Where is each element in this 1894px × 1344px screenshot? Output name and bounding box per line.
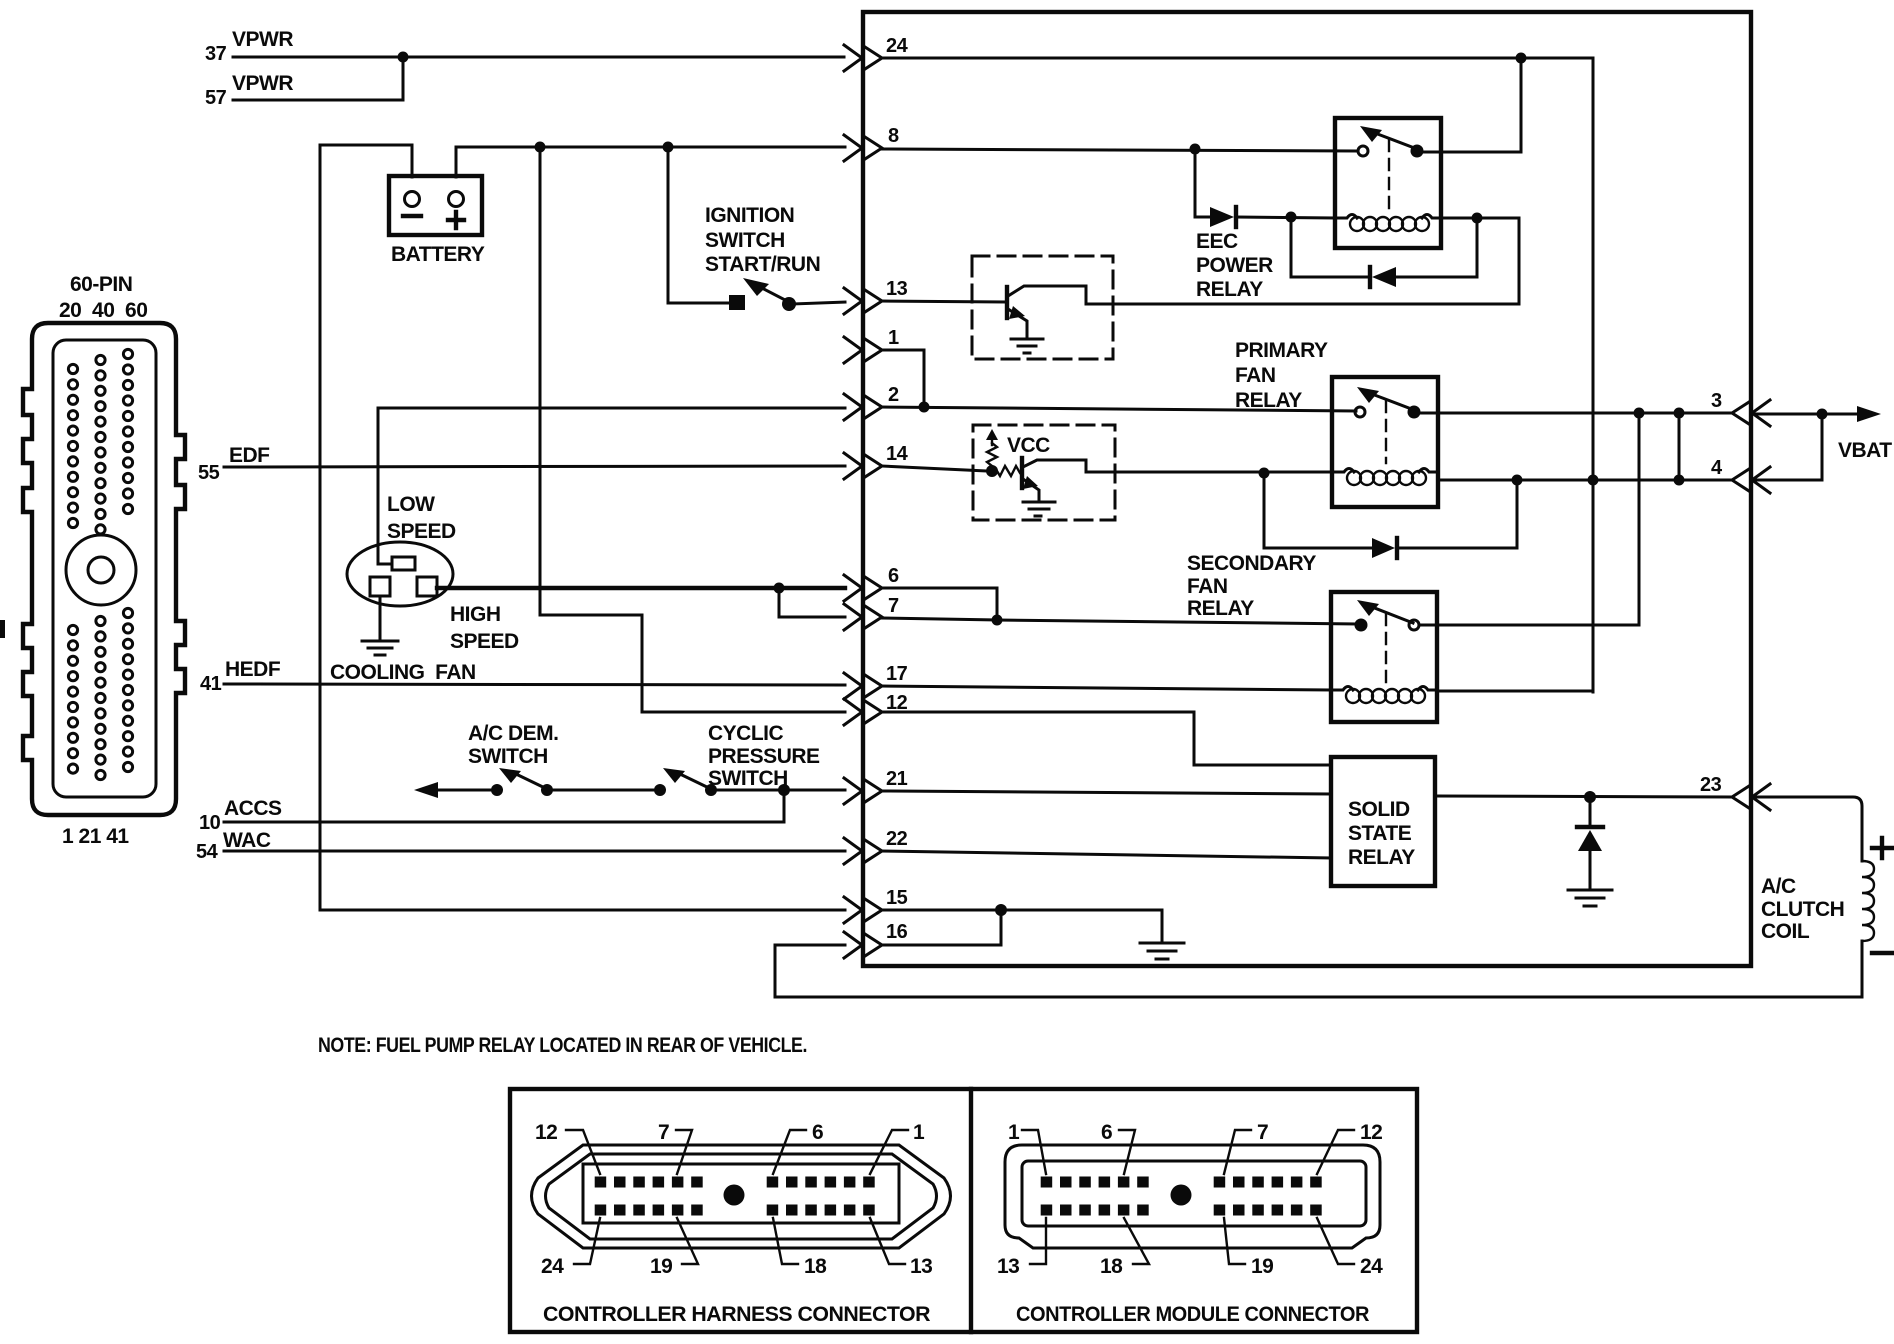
controller box (EEC module outline) — [863, 12, 1751, 966]
wire pin 7 tap — [779, 588, 845, 617]
wire secondary relay common to riser — [1420, 624, 1639, 627]
svg-text:2: 2 — [888, 384, 899, 406]
svg-text:14: 14 — [886, 443, 909, 465]
wire pin 8 to EEC relay contact — [881, 149, 1357, 151]
wire pin 2 to primary relay contact — [881, 407, 1356, 411]
node junction pin1/pin2 — [919, 402, 930, 413]
60-pin connector pins column 3 upper — [123, 349, 132, 513]
label + clutch coil — [1872, 838, 1892, 858]
svg-text:EEC: EEC — [1196, 230, 1238, 253]
primary relay blade arrowhead — [1357, 387, 1379, 403]
svg-text:RELAY: RELAY — [1196, 278, 1263, 301]
svg-text:VCC: VCC — [1007, 434, 1050, 457]
module connector pin 24 leader — [1317, 1218, 1354, 1264]
secondary relay blade arrowhead — [1357, 600, 1379, 616]
edge registration tick — [0, 620, 5, 638]
controller module connector inner shell — [1022, 1161, 1366, 1226]
pin 6 connector chevrons — [844, 575, 882, 601]
pin 2 connector chevrons — [844, 394, 882, 420]
wire secondary common riser — [1638, 413, 1641, 625]
transistor Q2 emitter arrowhead — [1023, 476, 1038, 489]
60-pin connector center bore — [88, 557, 114, 583]
wire 55 EDF to pin 14 — [224, 466, 845, 467]
controller harness connector pins bottom row — [595, 1205, 875, 1216]
secondary relay fixed contact — [1355, 619, 1368, 632]
svg-text:SECONDARY: SECONDARY — [1187, 552, 1316, 575]
wire primary clamp branch — [1264, 473, 1371, 548]
controller harness connector outer shell — [532, 1145, 951, 1248]
svg-text:SOLID: SOLID — [1348, 798, 1410, 821]
pin 17 connector chevrons — [844, 673, 882, 699]
secondary relay coil — [1331, 687, 1353, 691]
pin 1 connector chevrons — [844, 337, 882, 363]
primary fan relay box — [1332, 377, 1438, 507]
harness connector pin 19 leader — [677, 1218, 698, 1264]
module connector pin 19 leader — [1224, 1218, 1245, 1264]
svg-text:6: 6 — [888, 565, 899, 587]
wire pin 4 outside tie — [1751, 414, 1822, 480]
transistor Q2 driver dashed box — [973, 425, 1115, 520]
A/C demand switch left lead — [436, 789, 497, 792]
ground pin 15 — [1140, 943, 1184, 959]
wire EEC coil right to transistor collector node — [1441, 217, 1519, 220]
svg-text:4: 4 — [1711, 457, 1723, 479]
60-pin connector outer shell — [23, 323, 185, 815]
wire pin 16 inside tie to pin 15 — [881, 910, 1001, 945]
controller module connector pins bottom row — [1041, 1205, 1322, 1216]
ignition switch blade — [760, 287, 789, 302]
transistor Q1 emitter — [1008, 309, 1027, 338]
cooling fan high-speed terminal — [417, 577, 437, 596]
ignition switch blade arrowhead — [743, 278, 769, 296]
60-pin connector pins column 1 upper — [68, 364, 77, 527]
svg-text:VBAT: VBAT — [1838, 439, 1892, 462]
svg-text:7: 7 — [658, 1121, 669, 1144]
svg-text:HIGH: HIGH — [450, 603, 501, 626]
svg-text:20 40 60: 20 40 60 — [59, 299, 147, 322]
module connector pin 6 leader — [1119, 1130, 1135, 1174]
diode D2 EEC coil clamp — [1368, 267, 1372, 287]
svg-text:18: 18 — [804, 1255, 827, 1278]
svg-text:23: 23 — [1700, 774, 1722, 796]
secondary fan relay box — [1331, 592, 1437, 722]
harness connector pin 24 leader — [574, 1218, 600, 1264]
wire D1 to EEC coil — [1236, 217, 1335, 218]
svg-text:24: 24 — [541, 1255, 564, 1278]
cooling fan low-speed terminal — [392, 557, 415, 570]
A/C demand switch contact a — [491, 784, 503, 796]
wire EEC relay common to VPWR rail — [1417, 58, 1521, 152]
wire pin 23 to clutch coil — [1751, 797, 1862, 861]
60-pin connector center boss — [66, 535, 136, 605]
ground Q1 emitter — [1011, 339, 1043, 353]
svg-text:POWER: POWER — [1196, 254, 1273, 277]
battery positive sign — [448, 212, 464, 228]
bottom connectors outer frame — [510, 1089, 1417, 1332]
svg-text:SWITCH: SWITCH — [705, 229, 785, 252]
ignition switch pivot contact — [782, 297, 796, 311]
wire fan common to ground — [379, 596, 382, 640]
wire pin 3 to VBAT arrow — [1751, 413, 1868, 416]
wire solid state relay output to pin 23 — [1435, 796, 1733, 797]
solid state relay box — [1331, 757, 1435, 886]
node junction D1 / clamp diode — [1286, 212, 1297, 223]
svg-text:RELAY: RELAY — [1348, 846, 1415, 869]
wire pin 21 to solid state relay — [881, 791, 1331, 794]
wire pressure switch to pin 21 — [711, 789, 845, 792]
module connector pin 13 leader — [1030, 1218, 1046, 1264]
A/C clutch coil winding — [1862, 861, 1874, 941]
controller harness connector inner shell — [546, 1154, 937, 1239]
svg-text:1 21 41: 1 21 41 — [62, 825, 129, 848]
ground fan motor — [362, 641, 398, 655]
wire secondary coil right to VPWR rail — [1437, 690, 1593, 693]
wire pin 7 to secondary relay contact — [881, 618, 997, 620]
svg-text:CYCLIC: CYCLIC — [708, 722, 784, 745]
wire 41 HEDF to pin 17 — [224, 684, 845, 685]
pin 14 connector chevrons — [844, 453, 882, 479]
svg-text:22: 22 — [886, 828, 908, 850]
pin 23 connector chevrons — [1732, 784, 1770, 810]
bottom connectors divider — [969, 1089, 973, 1332]
svg-text:13: 13 — [886, 278, 908, 300]
svg-text:CLUTCH: CLUTCH — [1761, 898, 1844, 921]
wire pin 2 to low-speed winding — [378, 408, 845, 564]
controller module connector center boss — [1171, 1185, 1192, 1206]
EEC power relay box — [1335, 118, 1441, 248]
svg-text:24: 24 — [1360, 1255, 1383, 1278]
diode D1 EEC coil feed — [1210, 207, 1234, 227]
ignition switch fixed contact — [729, 295, 745, 310]
svg-text:PRESSURE: PRESSURE — [708, 745, 820, 768]
node junction coil-right / pin4 tie — [1674, 475, 1685, 486]
module connector pin 7 leader — [1224, 1130, 1251, 1174]
module connector pin 18 leader — [1124, 1218, 1149, 1264]
node junction battery rail / ignition feed — [663, 142, 674, 153]
wire ignition switch drop — [668, 147, 731, 303]
cooling fan motor body (oval) — [347, 542, 453, 606]
svg-text:FAN: FAN — [1187, 575, 1228, 598]
battery B1 body — [389, 176, 482, 235]
transistor Q2 emitter — [1023, 479, 1039, 501]
svg-text:7: 7 — [1257, 1121, 1268, 1144]
ground D4 — [1568, 890, 1612, 906]
transistor Q1 driver dashed box — [972, 256, 1113, 359]
secondary relay actuator dashed link — [1385, 614, 1387, 682]
cyclic pressure switch blade arrowhead — [663, 768, 685, 783]
cyclic pressure switch blade — [680, 774, 711, 789]
60-pin connector pins column 1 lower — [68, 625, 77, 773]
diode D4 clutch clamp (cathode up) — [1577, 825, 1603, 829]
svg-text:7: 7 — [888, 595, 899, 617]
svg-text:1: 1 — [913, 1121, 925, 1144]
svg-text:SWITCH: SWITCH — [468, 745, 548, 768]
svg-text:VPWR: VPWR — [232, 28, 293, 51]
svg-text:COIL: COIL — [1761, 920, 1810, 943]
wire D3 to coil-right row — [1397, 480, 1517, 548]
pin 12 connector chevrons — [844, 699, 882, 725]
pin 4 connector chevrons — [1732, 467, 1770, 493]
svg-text:12: 12 — [535, 1121, 557, 1144]
cooling fan common terminal — [370, 577, 390, 596]
svg-text:1: 1 — [888, 327, 899, 349]
cyclic pressure switch contact a — [654, 784, 666, 796]
svg-text:19: 19 — [650, 1255, 672, 1278]
node junction base/pull-up — [986, 465, 998, 477]
svg-text:24: 24 — [886, 35, 909, 57]
svg-text:SPEED: SPEED — [450, 630, 519, 653]
svg-text:EDF: EDF — [229, 444, 270, 467]
svg-text:RELAY: RELAY — [1187, 597, 1254, 620]
harness connector pin 12 leader — [566, 1130, 600, 1174]
node junction VPWR rail / EEC relay common — [1516, 53, 1527, 64]
wire D2 to coil right node — [1396, 218, 1477, 277]
wire pin 15 to internal ground — [881, 910, 1162, 941]
svg-text:8: 8 — [888, 125, 899, 147]
label - clutch coil — [1872, 951, 1892, 955]
svg-text:SWITCH: SWITCH — [708, 767, 788, 790]
svg-text:37: 37 — [205, 43, 227, 65]
svg-text:CONTROLLER MODULE CONNECTOR: CONTROLLER MODULE CONNECTOR — [1016, 1303, 1369, 1326]
A/C demand switch contact b — [541, 784, 553, 796]
wire D4 to ground — [1589, 851, 1592, 889]
svg-text:60-PIN: 60-PIN — [70, 273, 132, 296]
cyclic pressure switch contact b — [705, 784, 717, 796]
pin 16 connector chevrons — [844, 932, 882, 958]
svg-text:18: 18 — [1100, 1255, 1123, 1278]
EEC relay actuator dashed link — [1388, 140, 1390, 209]
harness connector pin 13 leader — [870, 1218, 905, 1264]
controller module connector pins top row — [1041, 1177, 1322, 1188]
node junction SSR output / clamp diode — [1584, 791, 1596, 803]
svg-text:PRIMARY: PRIMARY — [1235, 339, 1328, 362]
transistor Q2 collector — [1023, 460, 1332, 472]
node junction pin6/pin7 inside — [992, 615, 1003, 626]
wire pin 17 to secondary coil — [881, 686, 1331, 690]
node junction pin3 / pin4 tie — [1674, 408, 1685, 419]
wire A/C demand to cyclic pressure switch — [547, 789, 660, 792]
svg-text:1: 1 — [1008, 1121, 1020, 1144]
EEC relay moving contact — [1411, 145, 1424, 158]
node junction pin3/pin4 outside — [1817, 409, 1828, 420]
wire pin 22 to solid state relay — [881, 851, 1331, 858]
wire pin 14 to base network — [881, 466, 988, 471]
wire pin3/pin4 tie — [1678, 413, 1681, 480]
transistor Q2 base bar — [1020, 458, 1024, 488]
svg-text:VPWR: VPWR — [232, 72, 293, 95]
ground Q2 emitter — [1023, 502, 1055, 516]
svg-text:6: 6 — [812, 1121, 823, 1144]
wire pin 6 inside tie — [881, 588, 997, 620]
resistor R1 VCC pull-up (zigzag) — [987, 443, 997, 470]
wire 10 ACCS to pressure switch node — [224, 790, 784, 822]
svg-text:10: 10 — [199, 812, 221, 834]
controller harness connector pins top row — [595, 1177, 875, 1188]
wire primary relay common to pin 3 — [1420, 412, 1733, 415]
svg-text:54: 54 — [196, 841, 219, 863]
node junction pin 8 / diode feed — [1190, 144, 1201, 155]
wire clamp diode drop — [1589, 797, 1592, 827]
VCC pull-up arrow — [991, 437, 993, 445]
harness connector pin 6 leader — [773, 1130, 806, 1174]
svg-text:A/C: A/C — [1761, 875, 1796, 898]
60-pin connector inner shell — [53, 340, 156, 797]
svg-text:17: 17 — [886, 663, 908, 685]
pin 21 connector chevrons — [844, 778, 882, 804]
pin 22 connector chevrons — [844, 838, 882, 864]
resistor R2 base series (zigzag) — [997, 466, 1020, 476]
svg-text:12: 12 — [1360, 1121, 1382, 1144]
module connector pin 1 leader — [1022, 1130, 1046, 1174]
node junction pin6/pin7 tie (outside) — [774, 583, 785, 594]
wire pin 16 outside to clutch coil return — [775, 941, 1862, 997]
pin 13 connector chevrons — [844, 288, 882, 314]
transistor Q1 collector — [1008, 218, 1519, 304]
svg-text:NOTE: FUEL PUMP RELAY LOCATED: NOTE: FUEL PUMP RELAY LOCATED IN REAR OF… — [318, 1034, 807, 1057]
node junction battery rail / high-speed feed — [535, 142, 546, 153]
controller module connector outer shell — [1005, 1145, 1380, 1248]
pin 3 connector chevrons — [1732, 400, 1770, 426]
harness connector pin 1 leader — [870, 1130, 908, 1174]
pin 7 connector chevrons — [844, 604, 882, 630]
EEC relay fixed contact — [1358, 146, 1368, 156]
node junction VPWR rail / primary coil row — [1588, 475, 1599, 486]
wire pin 13 to Q1 base — [881, 301, 1005, 302]
svg-text:RELAY: RELAY — [1235, 389, 1302, 412]
svg-text:55: 55 — [198, 462, 220, 484]
svg-text:16: 16 — [886, 921, 908, 943]
VBAT arrowhead — [1857, 406, 1881, 422]
svg-text:FAN: FAN — [1235, 364, 1276, 387]
wire pin 1 tie to pin 2 — [881, 350, 924, 407]
controller harness connector center boss — [724, 1185, 745, 1206]
node junction 37/57 VPWR — [398, 52, 409, 63]
wire high-speed winding to pin 6 — [437, 586, 845, 590]
svg-text:IGNITION: IGNITION — [705, 204, 794, 227]
harness connector pin 18 leader — [773, 1218, 798, 1264]
secondary relay moving contact — [1409, 620, 1419, 630]
svg-text:15: 15 — [886, 887, 908, 909]
svg-text:57: 57 — [205, 87, 227, 109]
svg-text:19: 19 — [1251, 1255, 1273, 1278]
wire battery positive rail to pin 8 — [456, 147, 845, 177]
primary relay blade — [1372, 394, 1414, 410]
svg-text:BATTERY: BATTERY — [391, 243, 485, 266]
primary relay coil — [1332, 469, 1354, 473]
svg-text:START/RUN: START/RUN — [705, 253, 820, 276]
A/C demand switch left lead arrowhead — [414, 782, 438, 798]
pin 15 connector chevrons — [844, 897, 882, 923]
EEC relay coil — [1335, 215, 1357, 219]
harness connector pin 7 leader — [676, 1130, 692, 1174]
wire pin 24 VPWR rail inside box — [881, 58, 1593, 692]
svg-text:STATE: STATE — [1348, 822, 1412, 845]
wire 57 VPWR riser — [233, 57, 403, 100]
diode D3 primary coil clamp — [1372, 538, 1395, 558]
transistor Q1 emitter arrowhead — [1009, 306, 1025, 319]
svg-text:41: 41 — [200, 673, 222, 695]
wire 37 VPWR to pin 24 — [233, 56, 844, 59]
svg-text:13: 13 — [997, 1255, 1019, 1278]
svg-text:13: 13 — [910, 1255, 932, 1278]
wire EEC clamp branch — [1291, 217, 1368, 277]
primary relay actuator dashed link — [1385, 401, 1387, 463]
primary relay moving contact — [1408, 406, 1421, 419]
svg-text:6: 6 — [1101, 1121, 1112, 1144]
svg-text:CONTROLLER HARNESS CONNECTOR: CONTROLLER HARNESS CONNECTOR — [543, 1303, 930, 1326]
EEC relay blade — [1375, 133, 1417, 149]
svg-text:WAC: WAC — [223, 829, 271, 852]
svg-text:21: 21 — [886, 768, 908, 790]
transistor Q1 base bar — [1005, 287, 1009, 318]
battery negative terminal — [405, 192, 420, 207]
wire diode feed drop — [1195, 149, 1209, 217]
60-pin connector pins column 2 upper — [96, 355, 105, 534]
svg-text:COOLING FAN: COOLING FAN — [330, 661, 476, 684]
node junction pin15/pin16 — [995, 904, 1007, 916]
primary relay fixed contact — [1355, 407, 1365, 417]
svg-text:HEDF: HEDF — [225, 658, 281, 681]
pin 24 connector chevrons — [844, 45, 882, 71]
svg-text:A/C DEM.: A/C DEM. — [468, 722, 559, 745]
wire 54 WAC to pin 22 — [224, 850, 845, 853]
battery negative sign — [403, 214, 421, 218]
module connector pin 12 leader — [1317, 1130, 1354, 1174]
controller harness connector pin field — [583, 1164, 899, 1223]
node junction coil-right / clamp — [1472, 213, 1483, 224]
EEC relay blade arrowhead — [1360, 126, 1382, 142]
A/C demand switch blade — [516, 774, 547, 789]
pin 8 connector chevrons — [844, 135, 882, 161]
svg-text:SPEED: SPEED — [387, 520, 456, 543]
wire battery feed to pin 12 (via jogs) — [540, 147, 845, 712]
60-pin connector pins column 2 lower — [96, 616, 105, 779]
node junction pin3 / secondary common riser — [1634, 408, 1645, 419]
node junction coil-right / clamp riser — [1512, 475, 1523, 486]
A/C demand switch blade arrowhead — [499, 768, 521, 783]
node junction ACCS / pin 21 — [778, 784, 790, 796]
wire pin 12 to solid state relay — [881, 712, 1331, 765]
svg-text:ACCS: ACCS — [224, 797, 282, 820]
svg-text:3: 3 — [1711, 390, 1722, 412]
svg-text:LOW: LOW — [387, 493, 435, 516]
battery positive terminal — [449, 192, 464, 207]
wire ignition switch to pin 13 — [793, 302, 845, 304]
wire primary coil right row to pin 4 — [1438, 479, 1733, 482]
node junction primary coil-left / clamp — [1259, 468, 1270, 479]
wire battery negative to ground rail and pin 15 — [320, 145, 845, 910]
60-pin connector pins column 3 lower — [123, 608, 132, 771]
secondary relay blade — [1372, 607, 1413, 623]
